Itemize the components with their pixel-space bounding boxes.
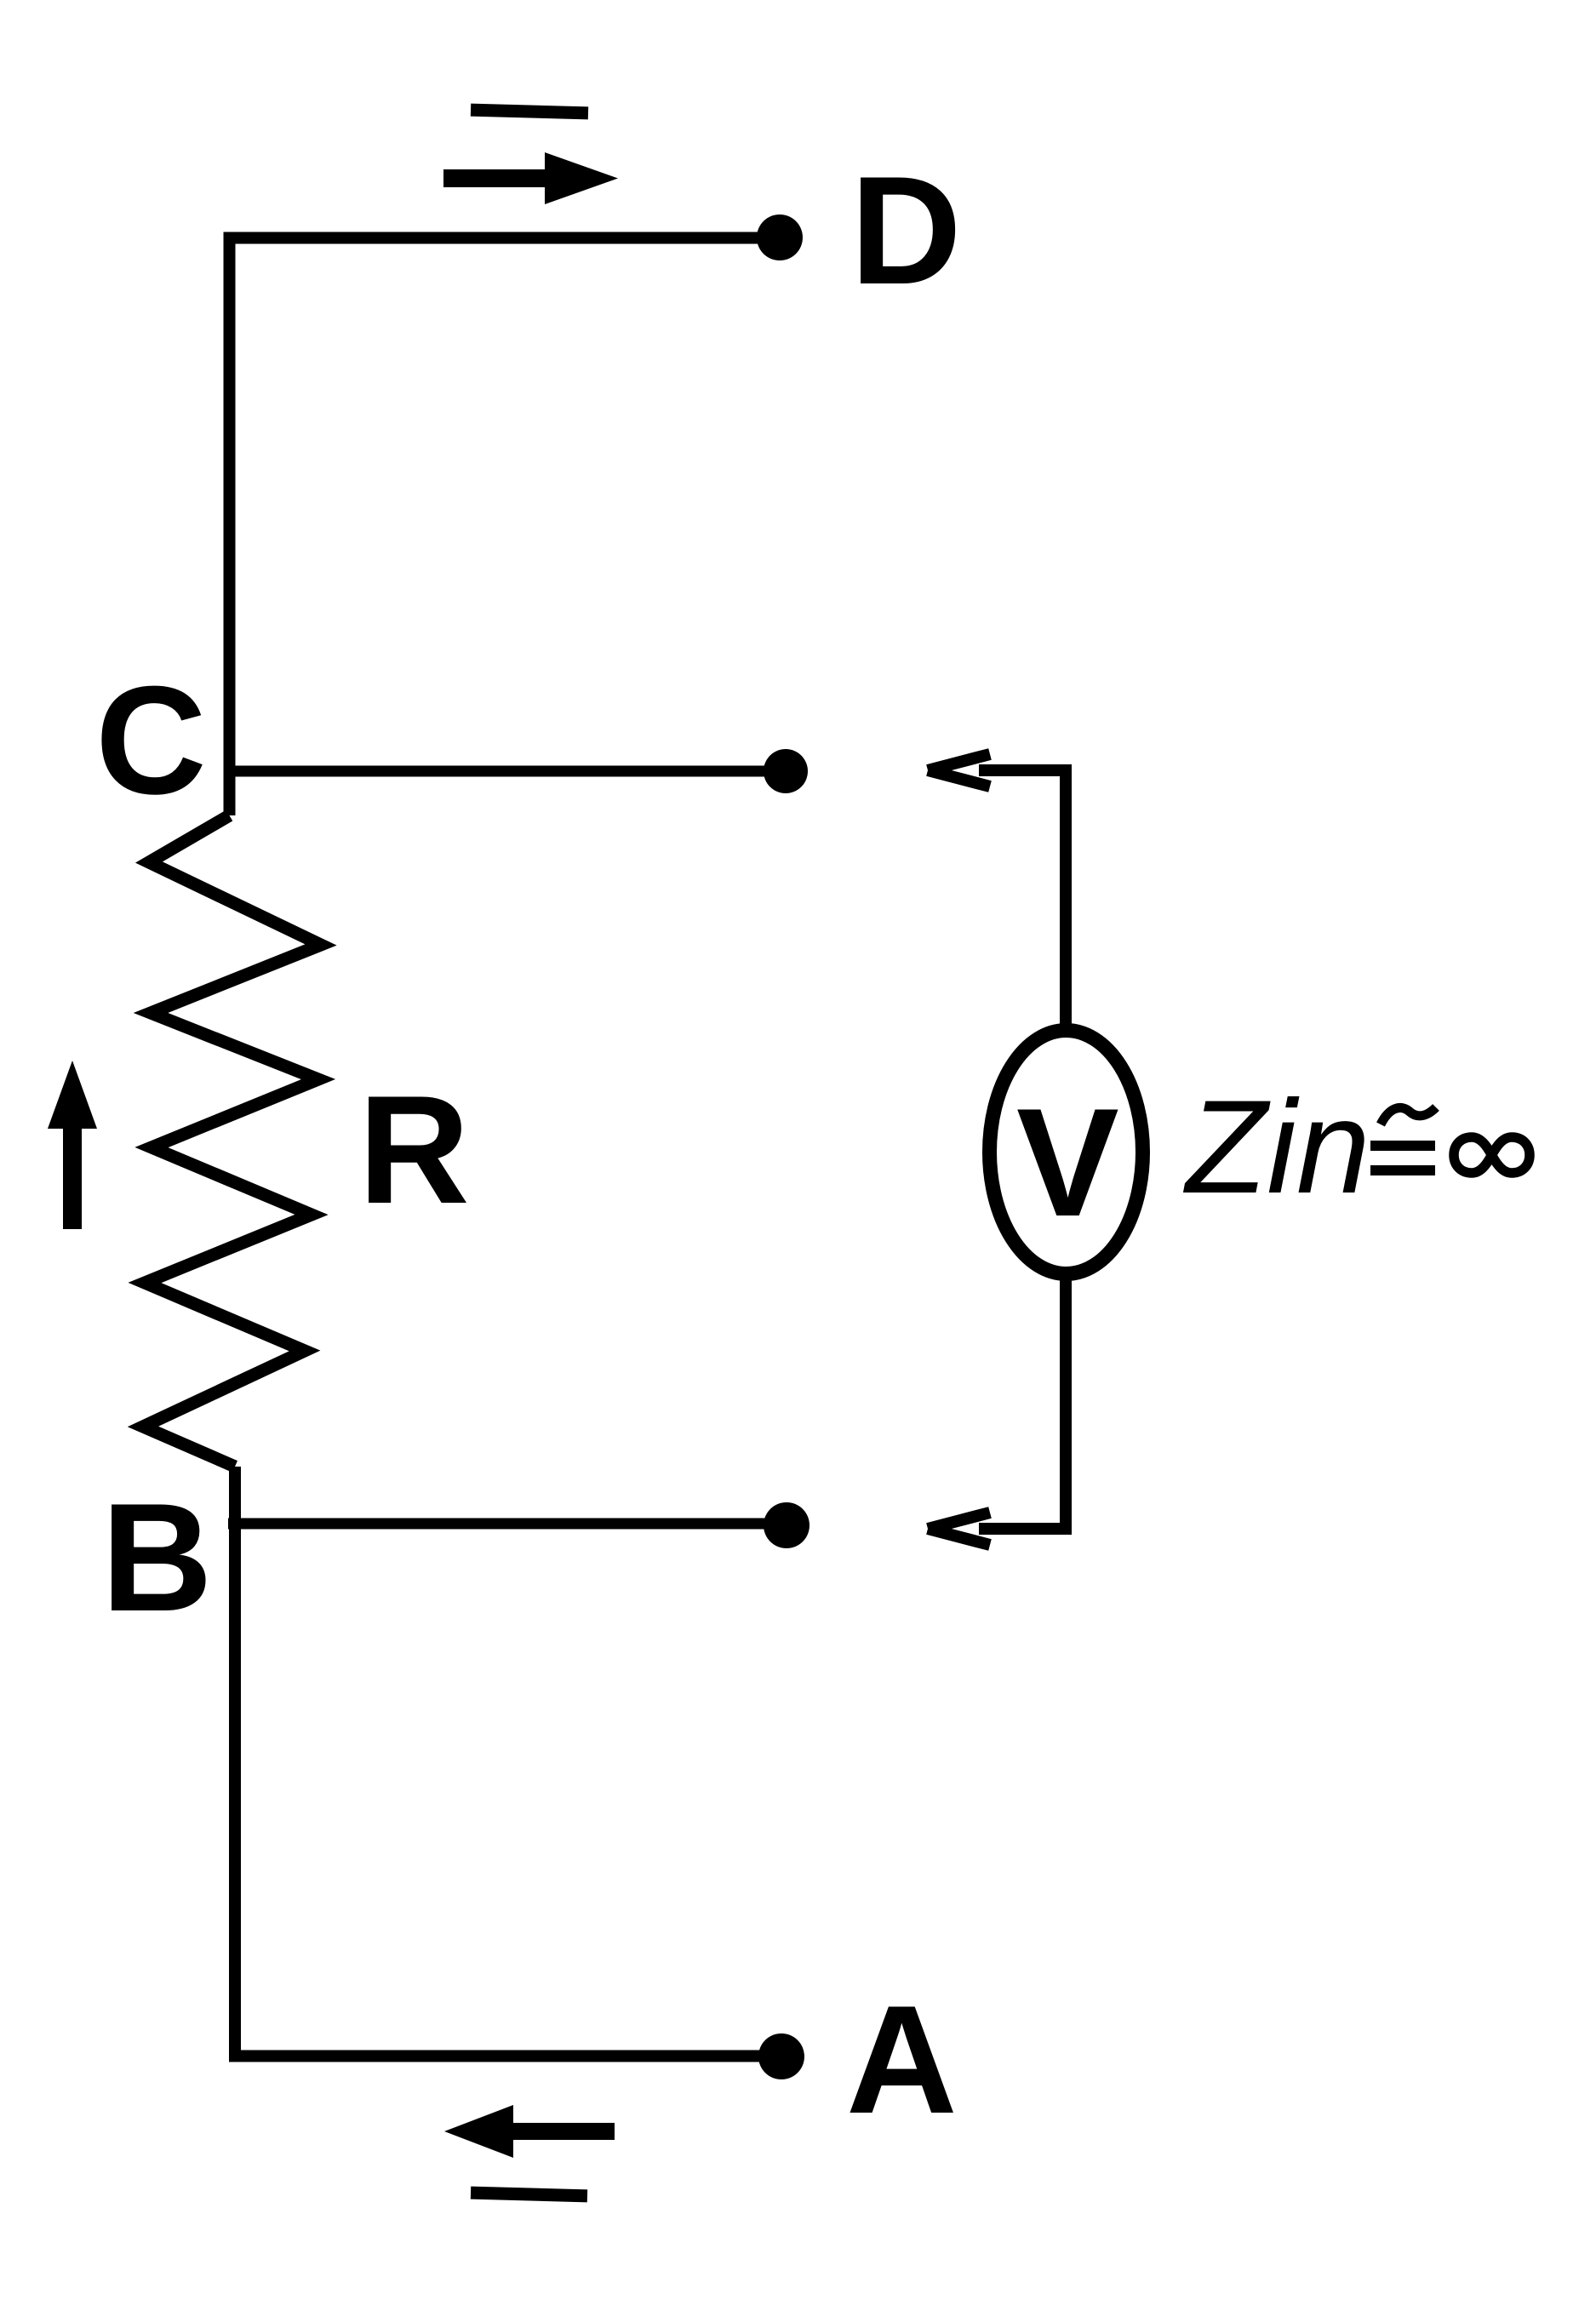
wire: main loop D-C-resistor-B-A [230, 238, 781, 816]
arrowhead at node C (open chevron, pointing left) [926, 748, 992, 792]
approx-equal symbol (tilde over two bars) [1370, 1107, 1436, 1175]
node A terminal dot [758, 2033, 804, 2079]
current label I (top bar) [471, 104, 588, 120]
svg-text:V: V [1016, 1077, 1119, 1249]
wire: C horizontal [230, 766, 786, 777]
current label I (bottom bar) [471, 2187, 587, 2203]
arrowhead at node B (open chevron, pointing left) [926, 1507, 992, 1551]
svg-text:C: C [95, 655, 207, 826]
voltmeter sense wire bottom [979, 1274, 1066, 1529]
svg-text:R: R [358, 1064, 470, 1236]
svg-text:D: D [850, 145, 962, 317]
current direction arrow (up, beside resistor) [48, 1061, 97, 1229]
svg-text:B: B [101, 1472, 213, 1644]
node D terminal dot [757, 214, 803, 260]
current arrow (bottom, pointing left) [444, 2105, 615, 2158]
resistor R (zigzag) [143, 815, 321, 1467]
node B terminal dot [764, 1502, 809, 1548]
svg-text:A: A [846, 1974, 958, 2146]
infinity symbol [1454, 1137, 1530, 1173]
svg-text:Zin: Zin [1182, 1073, 1370, 1221]
current arrow (top, pointing right) [443, 152, 618, 204]
voltmeter sense wire top [979, 770, 1066, 1030]
wire: B horizontal [228, 1519, 787, 1530]
voltmeter V (ellipse) [990, 1031, 1143, 1274]
wire: B down to A [235, 1467, 781, 2056]
node C terminal dot [764, 749, 808, 793]
